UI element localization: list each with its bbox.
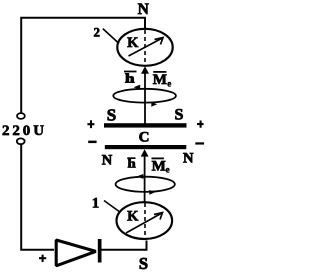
svg-text:1: 1 <box>92 195 100 211</box>
svg-text:K: K <box>127 209 139 225</box>
svg-text:N: N <box>183 150 194 166</box>
minus sign right of plates <box>195 142 204 144</box>
meter K (2) dashed axis <box>144 30 146 65</box>
svg-text:N: N <box>138 1 149 18</box>
wire: callout line to meter 2 <box>103 29 119 44</box>
vector arrow hbar/Me up (lower) <box>144 155 146 202</box>
svg-text:S: S <box>175 107 184 124</box>
label Me (upper) <box>153 71 166 73</box>
vector arrow hbar/Me up (upper) <box>144 73 146 124</box>
electron orbit (lower) <box>116 177 175 192</box>
diode D1 <box>56 240 96 266</box>
label Me (lower) <box>152 158 164 160</box>
label hbar (lower) <box>127 157 135 159</box>
meter K (2) needle <box>129 39 162 57</box>
svg-text:S: S <box>107 106 116 125</box>
meter K (2) galvanometer <box>117 29 172 66</box>
minus sign left of plates <box>88 141 96 144</box>
meter K (1) dashed axis <box>144 203 146 239</box>
wire: top horizontal from source to meter 2 branch <box>21 18 145 113</box>
terminal (lower) <box>17 138 25 144</box>
terminal (upper) <box>17 113 25 119</box>
svg-text:h: h <box>125 71 136 86</box>
label hbar (upper) <box>124 71 137 73</box>
diode D1 cathode bar <box>98 239 102 263</box>
wire: callout line to meter 1 <box>104 201 121 213</box>
orbit arrowhead left (lower) <box>137 174 144 179</box>
svg-text:M: M <box>152 158 166 174</box>
svg-text:220U: 220U <box>2 123 47 139</box>
svg-text:e: e <box>167 79 171 89</box>
wire: diode to meter 1 <box>101 241 147 250</box>
electron orbit (upper) <box>113 89 176 103</box>
plus sign left of top plate <box>87 120 94 128</box>
meter K (1) needle <box>126 214 161 234</box>
svg-text:K: K <box>127 35 139 51</box>
svg-text:M: M <box>153 72 167 88</box>
plus sign at diode anode <box>39 255 46 262</box>
capacitor C bottom plate <box>105 145 187 149</box>
wire: left lower + bottom run to diode <box>21 144 54 249</box>
svg-text:h: h <box>128 156 137 171</box>
orbit arrowhead right (lower) <box>149 190 155 195</box>
svg-text:C: C <box>139 130 150 146</box>
capacitor C top plate <box>104 123 187 127</box>
meter K (1) galvanometer <box>117 202 173 239</box>
svg-text:N: N <box>102 152 113 168</box>
plus sign right of top plate <box>197 121 204 128</box>
svg-text:S: S <box>139 254 148 273</box>
svg-text:2: 2 <box>94 24 101 39</box>
svg-text:e: e <box>166 164 170 174</box>
orbit arrowhead right (upper) <box>151 102 157 107</box>
orbit arrowhead left (upper) <box>134 85 141 90</box>
